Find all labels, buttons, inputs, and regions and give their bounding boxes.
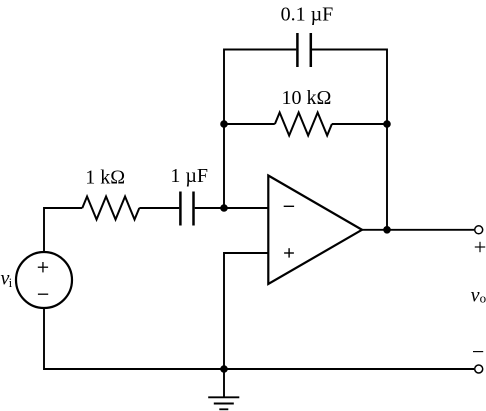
ground <box>208 369 239 409</box>
resistor R1 1 kOhm <box>82 197 139 220</box>
svg-text:v: v <box>471 284 480 306</box>
node dot: 10k left junction <box>220 120 228 128</box>
source vi plus sign <box>38 262 48 272</box>
source vi: circle symbol <box>16 252 72 308</box>
capacitor C2 1 uF <box>180 192 193 226</box>
wire: bottom row from source bottom to negative terminal <box>44 308 474 369</box>
label vo output voltage <box>471 284 486 306</box>
wire: 10k row right lead <box>332 123 387 125</box>
source vi minus sign <box>38 293 48 295</box>
op-amp U1 inverting input minus sign <box>284 205 294 207</box>
wire: top feedback row left segment <box>224 50 296 209</box>
label 0.1 uF value <box>281 3 334 25</box>
resistor R2 10 kOhm <box>275 113 332 136</box>
terminal: output negative open circle <box>475 365 483 373</box>
terminal: output positive open circle <box>475 226 483 234</box>
node dot: output junction <box>383 226 391 234</box>
capacitor C1 0.1 uF <box>297 33 310 67</box>
wire: 10k row left lead <box>224 123 275 125</box>
svg-text:10 kΩ: 10 kΩ <box>281 87 331 109</box>
wire: op-amp output to right terminal <box>362 229 474 231</box>
svg-text:0.1 µF: 0.1 µF <box>281 3 334 25</box>
label minus at output terminal <box>473 351 483 353</box>
wire: non-inverting input from ground node <box>224 253 268 369</box>
label vi input voltage <box>1 268 13 290</box>
wire: top feedback row right segment and right vertical <box>311 50 387 231</box>
node dot: bottom ground junction <box>220 365 228 373</box>
op-amp U1 non-inverting input plus sign <box>284 248 294 257</box>
op-amp U1 <box>268 176 362 285</box>
label 1 uF value <box>170 165 208 187</box>
node dot: 10k right junction <box>383 120 391 128</box>
label 1 kOhm value <box>85 167 125 189</box>
node dot: inverting input junction <box>220 204 228 212</box>
svg-text:1 kΩ: 1 kΩ <box>85 167 125 189</box>
label 10 kOhm value <box>281 87 331 109</box>
svg-text:1 µF: 1 µF <box>170 165 208 187</box>
label plus at output terminal <box>475 242 485 252</box>
wire: input row from capacitor to op-amp inverting input <box>195 207 269 209</box>
svg-text:o: o <box>480 290 486 305</box>
svg-text:i: i <box>9 275 13 290</box>
wire: input row from source to resistor <box>44 208 82 252</box>
wire: input row between resistor and capacitor <box>139 207 179 209</box>
